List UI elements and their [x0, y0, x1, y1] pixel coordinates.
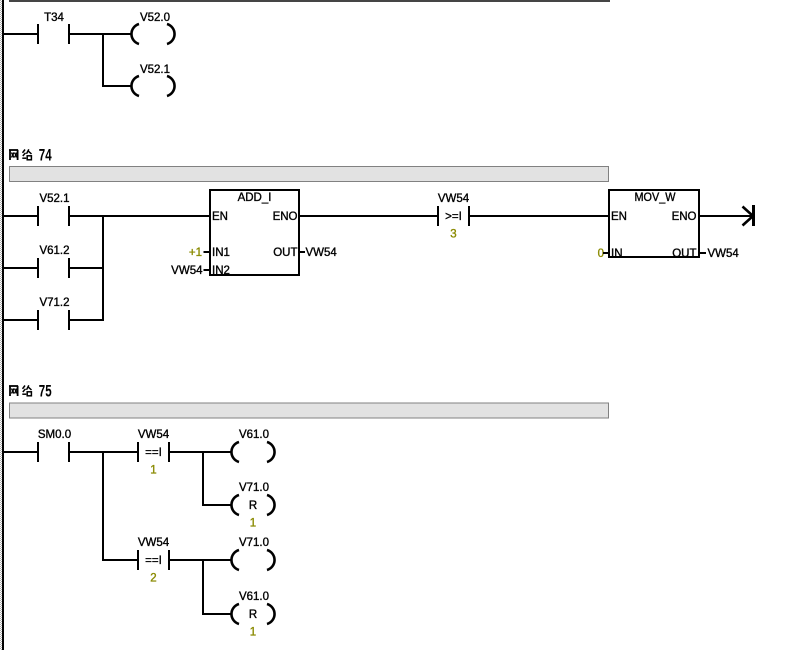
svg-text:VW54: VW54	[138, 537, 170, 549]
svg-text:V71.2: V71.2	[39, 297, 69, 309]
wire rail to T34	[4, 33, 37, 35]
svg-text:1: 1	[250, 627, 256, 639]
wire T34 to coil V52.0	[70, 33, 132, 35]
wire SM0.0 to comparator	[70, 451, 137, 453]
wire comparator to MOV_W	[470, 215, 608, 217]
branch vertical 2	[202, 451, 204, 506]
operand VW54 at OUT	[299, 251, 305, 253]
svg-text:VW54: VW54	[138, 429, 170, 441]
reset coil V71.0	[231, 495, 274, 515]
network 74 comment bar	[10, 167, 609, 182]
coil V52.1	[131, 76, 174, 96]
svg-text:OUT: OUT	[672, 248, 696, 260]
left power rail	[2, 0, 4, 650]
comparator contact VW54 >=I 3	[437, 206, 439, 226]
svg-text:T34: T34	[44, 12, 64, 24]
svg-text:V71.0: V71.0	[239, 482, 269, 494]
svg-text:+1: +1	[189, 247, 202, 259]
wire V71.2 to branch	[70, 319, 104, 321]
contact SM0.0	[37, 442, 39, 462]
wire MOV_W ENO to arrow	[700, 215, 752, 217]
svg-text:V61.2: V61.2	[39, 245, 69, 257]
svg-text:ENO: ENO	[273, 211, 298, 223]
wire rail to V52.1	[4, 215, 37, 217]
svg-text:EN: EN	[611, 211, 627, 223]
svg-text:>=I: >=I	[445, 211, 462, 223]
svg-text:SM0.0: SM0.0	[38, 429, 71, 441]
contact V52.1	[37, 206, 39, 226]
svg-text:ADD_I: ADD_I	[238, 192, 272, 204]
wire comparator2 to coil V71.0	[170, 559, 232, 561]
wire branch3 to reset coil V61.0	[204, 613, 232, 615]
contact V71.2	[4, 319, 37, 321]
svg-text:IN1: IN1	[212, 247, 230, 259]
svg-text:1: 1	[150, 465, 156, 477]
wire contact to ADD_I EN	[70, 215, 209, 217]
coil V71.0	[231, 550, 274, 570]
svg-text:VW54: VW54	[708, 248, 740, 260]
wire comparator to coil V61.0	[170, 451, 232, 453]
network 75 comment bar	[10, 403, 609, 418]
box MOV_W	[609, 190, 699, 257]
svg-text:V61.0: V61.0	[239, 429, 269, 441]
svg-text:VW54: VW54	[438, 193, 470, 205]
svg-text:OUT: OUT	[273, 247, 297, 259]
wire branch to coil V52.1	[104, 85, 132, 87]
hanzi wang (net)	[9, 150, 18, 160]
network divider line top	[9, 0, 610, 2]
svg-text:V71.0: V71.0	[239, 537, 269, 549]
box ADD_I	[210, 190, 299, 275]
svg-text:2: 2	[150, 573, 156, 585]
branch vertical	[102, 215, 104, 321]
svg-text:==I: ==I	[145, 555, 162, 567]
svg-text:VW54: VW54	[306, 247, 338, 259]
wire ADD_I ENO to comparator	[300, 215, 437, 217]
rung continuation arrow	[752, 205, 755, 226]
svg-text:74: 74	[39, 147, 52, 165]
svg-text:==I: ==I	[145, 447, 162, 459]
wire branch2 to reset coil V71.0	[204, 504, 232, 506]
coil V61.0	[231, 442, 274, 462]
wire V61.2 to branch	[70, 267, 104, 269]
svg-text:V52.0: V52.0	[140, 12, 170, 24]
svg-text:VW54: VW54	[171, 265, 203, 277]
svg-text:IN2: IN2	[212, 265, 230, 277]
coil V52.0	[131, 24, 174, 44]
branch junction vertical	[102, 33, 104, 87]
operand VW54 at OUT	[700, 252, 706, 254]
wire rail to SM0.0	[4, 451, 37, 453]
svg-text:EN: EN	[212, 211, 228, 223]
hanzi luo (work)	[22, 385, 31, 396]
svg-text:75: 75	[39, 383, 52, 401]
svg-text:V61.0: V61.0	[239, 591, 269, 603]
branch vertical 3	[202, 559, 204, 615]
branch vertical 1	[102, 451, 104, 561]
svg-text:ENO: ENO	[672, 211, 697, 223]
hanzi luo (work)	[22, 149, 31, 160]
svg-text:3: 3	[450, 229, 456, 241]
svg-text:1: 1	[250, 518, 256, 530]
svg-text:IN: IN	[611, 248, 623, 260]
wire branch1 to comparator 2	[104, 559, 137, 561]
svg-text:MOV_W: MOV_W	[635, 192, 676, 204]
hanzi wang (net)	[9, 386, 18, 396]
contact T34	[37, 24, 70, 44]
svg-text:R: R	[249, 500, 257, 512]
svg-text:V52.1: V52.1	[140, 64, 170, 76]
window left edge dithered strip	[0, 0, 2, 650]
svg-text:R: R	[249, 609, 257, 621]
comparator contact VW54 ==I 2	[137, 550, 139, 570]
contact V61.2	[4, 267, 37, 269]
reset coil V61.0	[231, 604, 274, 624]
comparator contact VW54 ==I 1	[137, 442, 139, 462]
svg-text:V52.1: V52.1	[39, 193, 69, 205]
